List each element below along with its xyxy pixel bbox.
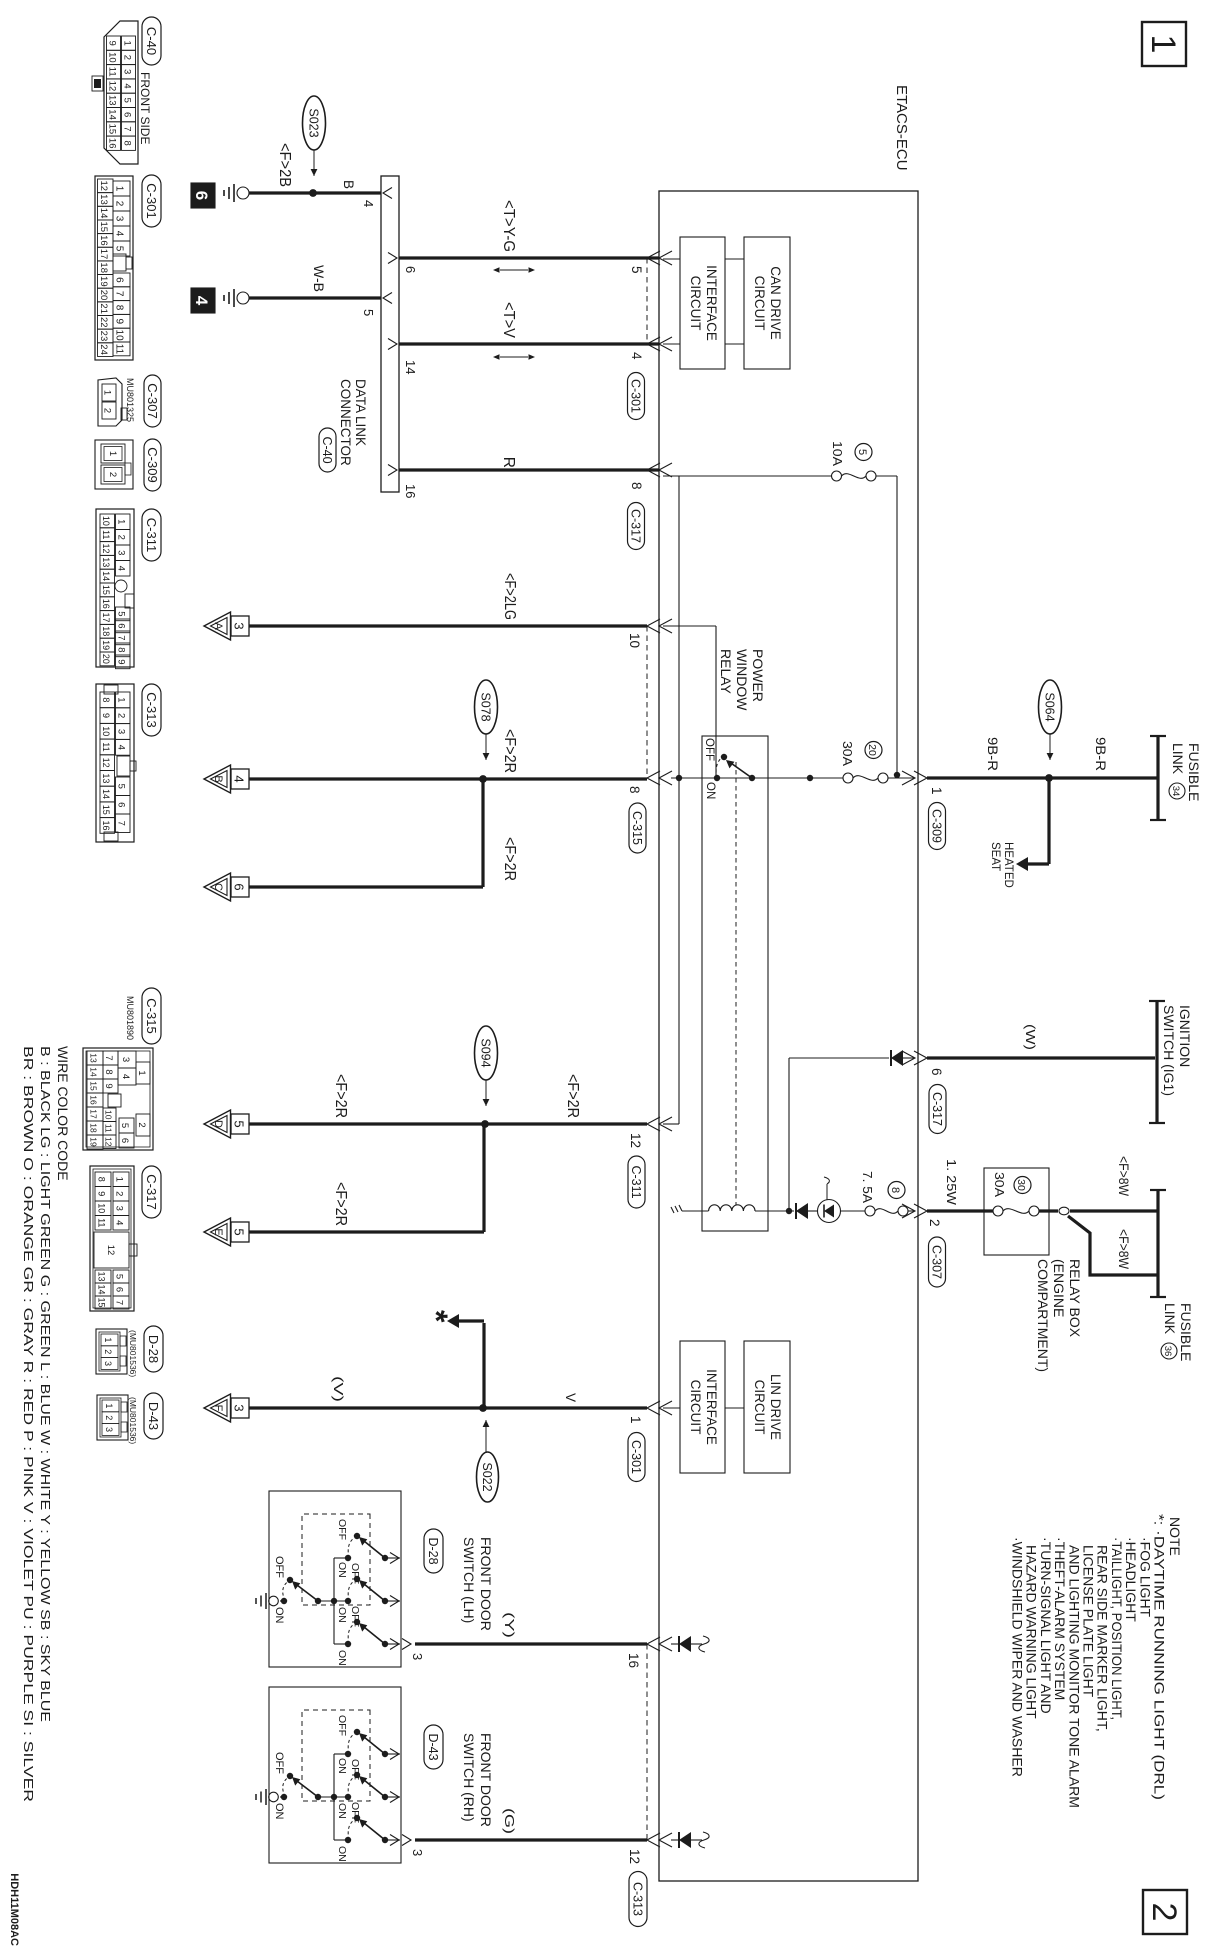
svg-text:14: 14 (403, 360, 418, 374)
pin ETACS 4 C-301 (647, 337, 660, 351)
relay contact OFF node (721, 754, 727, 760)
pin chevron DLC pin5 (383, 293, 392, 304)
svg-text:OFF: OFF (349, 1606, 361, 1627)
svg-text:SWITCH (RH): SWITCH (RH) (461, 1733, 477, 1822)
fuse 20 30A (878, 773, 888, 783)
svg-text:<F>2R: <F>2R (501, 729, 518, 773)
svg-text:S078: S078 (478, 692, 492, 721)
svg-text:<F>8W: <F>8W (1116, 1229, 1131, 1269)
wire pin5 to interface (663, 258, 680, 260)
svg-text:5: 5 (122, 98, 133, 103)
svg-text:A: A (212, 622, 224, 630)
wire fuse20 to top pins (888, 777, 914, 779)
svg-text:C-40: C-40 (144, 27, 159, 55)
pin ETACS 5 (647, 251, 660, 265)
svg-text:14: 14 (97, 1284, 107, 1294)
svg-text:14: 14 (101, 789, 111, 799)
wire <F>8W branch 1 to fusible link 36 (1070, 1209, 1158, 1212)
ground 6 symbol (237, 187, 249, 199)
connector DATA LINK CONNECTOR C-40 bar (381, 176, 399, 492)
wire R (DLC pin16 to ETACS pin8 C-317) (399, 468, 659, 471)
svg-text:CIRCUIT: CIRCUIT (688, 1380, 703, 1435)
output wire 3 (385, 1839, 400, 1841)
main pole to bus (318, 1796, 348, 1798)
svg-text:15: 15 (97, 1297, 107, 1307)
main dashed throw (283, 1777, 289, 1797)
surge arrester tail (826, 1184, 828, 1200)
svg-text:30A: 30A (992, 1172, 1007, 1197)
svg-text:ON: ON (336, 1803, 348, 1819)
svg-text:13: 13 (97, 1271, 107, 1281)
bus line (333, 1558, 335, 1644)
inter-page connector triangle B (204, 765, 231, 793)
label fuse 30 circled (1014, 1177, 1031, 1194)
svg-text:INTERFACE: INTERFACE (704, 265, 719, 341)
svg-text:·FOG LIGHT: ·FOG LIGHT (1137, 1537, 1153, 1618)
C-301 notch (113, 254, 126, 271)
svg-text:5: 5 (114, 1274, 125, 1279)
svg-text:ON: ON (336, 1758, 348, 1774)
svg-text:17: 17 (98, 249, 109, 260)
svg-text:36: 36 (1162, 1346, 1173, 1357)
svg-text:1: 1 (136, 1070, 147, 1075)
svg-text:12: 12 (107, 81, 118, 92)
svg-text:·THEFT-ALARM SYSTEM: ·THEFT-ALARM SYSTEM (1052, 1537, 1068, 1700)
svg-text:9B-R: 9B-R (1093, 737, 1108, 771)
svg-text:R: R (500, 457, 517, 468)
svg-text:OFF: OFF (336, 1715, 348, 1736)
svg-text:ON: ON (336, 1562, 348, 1578)
relay mechanical dashed link (735, 762, 737, 1205)
svg-text:8: 8 (889, 1187, 901, 1193)
wire <F>2R branch to triangle C (481, 779, 484, 887)
label C-40 oval (319, 428, 336, 472)
splice S022 dot (479, 1404, 487, 1412)
svg-text:CIRCUIT: CIRCUIT (752, 1380, 767, 1435)
wire diode branch to coil node (788, 1058, 790, 1211)
svg-text:·TAILLIGHT, POSITION LIGHT,: ·TAILLIGHT, POSITION LIGHT, (1109, 1537, 1125, 1720)
wire relay common vertical (pin8 C-315 to fuse 20) (671, 777, 843, 779)
inter-page connector F3 box (231, 1398, 249, 1418)
page number box 1 (1142, 22, 1186, 66)
label D-28 oval (424, 1529, 443, 1573)
svg-text:FRONT SIDE: FRONT SIDE (138, 72, 152, 144)
svg-text:24: 24 (98, 344, 109, 355)
relay POWER WINDOW RELAY box (702, 736, 768, 1231)
svg-text:13: 13 (107, 95, 118, 106)
svg-text:12: 12 (627, 1849, 642, 1864)
connector pinout C-317 (142, 1166, 161, 1218)
main ON node (281, 1598, 287, 1604)
svg-text:ON: ON (273, 1803, 285, 1820)
wire fuse5 to bus corner (876, 475, 897, 477)
svg-text:CONNECTOR: CONNECTOR (338, 379, 353, 466)
svg-text:<F>2R: <F>2R (332, 1074, 349, 1118)
switch FRONT DOOR SWITCH (RH) box (269, 1687, 401, 1863)
connector pinout C-309 (144, 439, 161, 491)
diode pin6 (891, 1050, 903, 1066)
svg-text:7. 5A: 7. 5A (860, 1171, 875, 1203)
svg-text:17: 17 (89, 1109, 99, 1119)
wire stub CAN pin4 (725, 343, 744, 345)
main dashed throw (283, 1581, 289, 1601)
wire surge to diode (808, 1210, 818, 1212)
C-313 notch (117, 756, 130, 776)
svg-text:3: 3 (104, 1427, 114, 1432)
svg-text:5: 5 (116, 611, 127, 616)
pin ETACS 1 C-301 (647, 1401, 660, 1415)
svg-text:LICENSE PLATE LIGHT: LICENSE PLATE LIGHT (1081, 1545, 1097, 1698)
svg-text:13: 13 (89, 1053, 99, 1063)
door switch contact set 2 (345, 1598, 351, 1604)
squiggle pin12 (699, 1832, 709, 1848)
svg-text:15: 15 (98, 221, 109, 232)
svg-text:C-311: C-311 (629, 1165, 643, 1198)
svg-text:LIN DRIVE: LIN DRIVE (768, 1374, 783, 1440)
wire (Y) front door switch LH to pin16 (415, 1642, 647, 1645)
svg-text:C-311: C-311 (144, 518, 159, 552)
ground symbol door switch (269, 1596, 279, 1606)
pin chevron DLC pin6 (388, 253, 397, 264)
svg-text:8: 8 (122, 141, 133, 146)
svg-text:2: 2 (102, 408, 113, 413)
pin ETACS 10 (647, 619, 660, 633)
C-40 tab M (92, 76, 103, 91)
door switch contact set 3 (345, 1837, 351, 1843)
wire internal bus to pin12 C-311 (678, 476, 680, 1124)
svg-text:MU801325: MU801325 (125, 378, 135, 422)
node fuse5/bus junction (894, 772, 900, 778)
svg-text:14: 14 (98, 208, 109, 219)
svg-text:F: F (212, 1405, 224, 1412)
svg-text:FRONT DOOR: FRONT DOOR (478, 1537, 494, 1631)
svg-text:8: 8 (627, 786, 642, 794)
wire <F>8W branch 2 (1068, 1216, 1158, 1275)
pin ETACS 16 (647, 1637, 660, 1651)
fusible link 34 bar (1156, 736, 1159, 820)
svg-text:2: 2 (114, 1191, 125, 1196)
svg-text:FUSIBLE: FUSIBLE (1178, 1303, 1194, 1361)
door switch contact set 3 (345, 1641, 351, 1647)
svg-text:2: 2 (122, 55, 133, 60)
svg-text:S064: S064 (1042, 692, 1056, 721)
svg-text:4: 4 (114, 1220, 125, 1225)
svg-text:<F>2R: <F>2R (501, 837, 518, 881)
svg-text:RELAY: RELAY (718, 649, 734, 695)
node coil/diode junction (786, 1208, 792, 1214)
svg-text:15: 15 (101, 805, 111, 815)
svg-text:<F>2B: <F>2B (276, 143, 293, 187)
fuse 30 30A (1029, 1206, 1039, 1216)
svg-text:3: 3 (114, 216, 125, 222)
svg-text:(W): (W) (1023, 1024, 1038, 1050)
svg-text:OFF: OFF (703, 738, 715, 761)
svg-text:11: 11 (101, 742, 111, 751)
inter-page connector C6 box (231, 877, 249, 897)
svg-text:CIRCUIT: CIRCUIT (688, 276, 703, 331)
svg-text:16: 16 (98, 235, 109, 246)
inner dashed box (302, 1514, 370, 1605)
svg-text:D-43: D-43 (146, 1402, 161, 1430)
svg-text:10: 10 (104, 1110, 114, 1120)
wire pin10 to relay ON contact (663, 625, 716, 627)
svg-text:3: 3 (103, 1361, 113, 1366)
pin ETACS top 2 C-307 (914, 1204, 927, 1218)
C-317 center cell 12 (94, 1232, 129, 1268)
svg-text:B : BLACK LG : LIGHT GREEN: B : BLACK LG : LIGHT GREEN G : GREEN L :… (38, 1046, 53, 1722)
pin chevron DLC pin14 (388, 339, 397, 350)
svg-text:1: 1 (929, 787, 944, 795)
svg-text:1: 1 (114, 186, 125, 192)
bus line (333, 1754, 335, 1840)
svg-text:SWITCH (LH): SWITCH (LH) (461, 1537, 477, 1623)
wire stub LIN link (725, 1407, 744, 1409)
splice S064 label (1039, 680, 1062, 734)
wire heated seat branch (1047, 778, 1050, 864)
svg-text:6: 6 (116, 802, 127, 807)
connector pinout C-311 (142, 509, 161, 561)
svg-text:10: 10 (97, 1203, 107, 1213)
inter-page connector D5 box (231, 1114, 249, 1134)
svg-text:11: 11 (101, 530, 111, 539)
door switch contact set 1 (345, 1751, 351, 1757)
svg-text:12: 12 (101, 543, 111, 553)
svg-text:<T>V: <T>V (500, 302, 517, 339)
svg-text:5: 5 (856, 449, 868, 455)
label fuse 20 circled (865, 742, 882, 759)
svg-text:17: 17 (101, 612, 111, 622)
svg-text:8: 8 (101, 697, 111, 702)
connector pinout C-313 (142, 684, 161, 736)
svg-text:5: 5 (629, 266, 644, 274)
svg-text:13: 13 (98, 194, 109, 205)
pin ETACS 12 C-313 (647, 1833, 660, 1847)
diode coil line (796, 1203, 808, 1219)
pivot node (315, 1598, 321, 1604)
wire fuse8 to surge arrester (841, 1210, 866, 1212)
wire 9B-R (pin1 C-309 to fusible link 34) (927, 776, 1158, 779)
wire asterisk branch (482, 1323, 485, 1408)
svg-text:*: ·DAYTIME RUNNING LIGHT (DRL: *: ·DAYTIME RUNNING LIGHT (DRL) (1152, 1514, 1168, 1800)
connector link dashed 10-8 (646, 626, 648, 778)
pin ETACS top 6 C-317 (914, 1051, 927, 1065)
op-amp: ETACS-ECU main box (659, 191, 918, 1881)
svg-text:18: 18 (89, 1123, 99, 1133)
output double chevron main (402, 1835, 411, 1846)
splice S023 label (303, 96, 326, 150)
wire pin2 to engine relay box (927, 1209, 993, 1212)
node dot above relay (807, 775, 813, 781)
svg-text:OFF: OFF (349, 1802, 361, 1823)
svg-text:16: 16 (89, 1095, 99, 1105)
svg-text:OFF: OFF (336, 1519, 348, 1540)
svg-text:OFF: OFF (273, 1556, 285, 1578)
svg-text:8: 8 (116, 647, 127, 652)
output wire 1 (385, 1557, 400, 1559)
svg-text:5: 5 (361, 309, 376, 316)
splice S078 label (475, 680, 498, 734)
svg-text:MU801890: MU801890 (125, 996, 135, 1040)
bus junction node (331, 1794, 337, 1800)
svg-text:S094: S094 (478, 1038, 492, 1067)
diode pin16 (678, 1636, 680, 1652)
svg-text:D-28: D-28 (426, 1537, 440, 1564)
wire pin6 internal (903, 1057, 914, 1059)
svg-text:15: 15 (89, 1081, 99, 1091)
svg-text:HEATED: HEATED (1002, 842, 1014, 888)
svg-text:7: 7 (103, 1055, 114, 1060)
connector pinout D-43 (144, 1393, 163, 1439)
output wire 2 (385, 1796, 400, 1798)
svg-text:8: 8 (629, 482, 644, 490)
inter-page connector E5 box (231, 1222, 249, 1242)
svg-text:4: 4 (192, 296, 211, 306)
svg-text:12: 12 (101, 758, 111, 768)
splice S094 label (475, 1026, 498, 1080)
relay contact ON node (714, 775, 720, 781)
output wire 3 (385, 1643, 400, 1645)
svg-text:1: 1 (116, 697, 127, 702)
svg-text:<T>Y-G: <T>Y-G (500, 200, 517, 252)
svg-text:4: 4 (232, 775, 247, 782)
svg-text:1: 1 (102, 390, 113, 395)
svg-text:20: 20 (101, 654, 111, 664)
svg-text:C-309: C-309 (930, 809, 944, 843)
splice S023 dot (309, 189, 317, 197)
inter-page connector triangle A (204, 612, 231, 640)
wire <F>2LG (triangle A to pin10) (249, 624, 647, 627)
door switch contact set 2 (345, 1794, 351, 1800)
svg-text:11: 11 (104, 1124, 114, 1133)
connector link dashed 5-4 (646, 258, 648, 344)
svg-text:HAZARD WARNING LIGHT: HAZARD WARNING LIGHT (1024, 1545, 1040, 1719)
svg-text:C-301: C-301 (629, 379, 643, 413)
svg-text:4: 4 (116, 566, 127, 571)
svg-text:7: 7 (122, 126, 133, 131)
svg-text:6: 6 (929, 1068, 944, 1076)
svg-text:7: 7 (116, 635, 127, 640)
svg-text:19: 19 (98, 276, 109, 287)
svg-text:OFF: OFF (349, 1759, 361, 1780)
pin ETACS 12 C-311 (647, 1117, 660, 1131)
svg-text:W-B: W-B (311, 265, 326, 292)
bidirectional arrow V (500, 356, 528, 358)
svg-text:2: 2 (116, 535, 127, 540)
bullet connector (1059, 1207, 1069, 1215)
svg-text:4: 4 (116, 745, 127, 750)
fuse 8 7.5A (898, 1206, 908, 1216)
svg-text:5: 5 (232, 1120, 247, 1127)
fuse 5 10A (866, 471, 876, 481)
inter-page connector triangle E (204, 1218, 231, 1246)
svg-text:2: 2 (1145, 1903, 1183, 1922)
main pole wire (280, 1600, 284, 1602)
wire <F>2R branch to triangle E (482, 1124, 485, 1232)
arrowhead asterisk (447, 1314, 459, 1328)
wire pin2 internal to fuse 8 (908, 1210, 914, 1212)
svg-text:1: 1 (107, 451, 118, 456)
svg-text:5: 5 (232, 1228, 247, 1235)
svg-text:2: 2 (103, 1349, 113, 1354)
svg-text:IGNITION: IGNITION (1177, 1005, 1193, 1067)
svg-text:<F>2R: <F>2R (564, 1074, 581, 1118)
bidirectional arrow Y-G (500, 269, 528, 271)
inter-page connector triangle D (204, 1110, 231, 1138)
svg-text:<F>2R: <F>2R (332, 1182, 349, 1226)
svg-text:16: 16 (101, 820, 111, 830)
ground 6 black box (191, 183, 215, 208)
svg-text:4: 4 (629, 352, 644, 360)
svg-text:10A: 10A (830, 441, 845, 466)
svg-text:9: 9 (97, 1191, 107, 1196)
svg-text:B: B (341, 180, 356, 189)
svg-text:D-28: D-28 (146, 1335, 161, 1363)
svg-text:RELAY BOX: RELAY BOX (1067, 1259, 1083, 1338)
svg-text:1: 1 (104, 1403, 114, 1408)
svg-text:10: 10 (101, 516, 111, 526)
svg-text:(V): (V) (331, 1376, 346, 1402)
block CAN DRIVE CIRCUIT (744, 237, 790, 369)
svg-text:9B-R: 9B-R (985, 737, 1000, 771)
squiggle pin16 (699, 1636, 709, 1652)
output wire 2 (385, 1600, 400, 1602)
svg-text:BR : BROWN O : ORANGE GR: BR : BROWN O : ORANGE GR : GRAY R : RED … (21, 1046, 36, 1802)
svg-text:14: 14 (107, 109, 118, 120)
door switch contact set 1 (345, 1555, 351, 1561)
svg-text:16: 16 (101, 599, 111, 609)
block INTERFACE CIRCUIT (CAN side) (680, 237, 725, 369)
svg-text:1: 1 (628, 1416, 643, 1424)
wire pin8 C-317 up to fuse 5 (663, 475, 832, 477)
relay contact arm (728, 761, 752, 778)
svg-text:AND LIGHTING MONITOR TONE ALAR: AND LIGHTING MONITOR TONE ALARM (1066, 1545, 1082, 1808)
svg-text:FUSIBLE: FUSIBLE (1186, 743, 1202, 801)
svg-text:3: 3 (122, 69, 133, 74)
svg-text:10: 10 (114, 330, 125, 342)
svg-text:FRONT DOOR: FRONT DOOR (478, 1733, 494, 1827)
svg-text:3: 3 (232, 622, 247, 629)
svg-text:12: 12 (628, 1133, 643, 1148)
pin ETACS top 1 C-309 (914, 771, 927, 785)
svg-text:9: 9 (107, 40, 118, 45)
svg-text:E: E (212, 1228, 224, 1235)
diode pin12 (678, 1832, 680, 1848)
svg-text:7: 7 (114, 291, 125, 297)
wire <T>V (DLC pin14 to ETACS pin4) (399, 342, 659, 345)
label D-43 oval (424, 1725, 443, 1769)
svg-text:SWITCH (IG1): SWITCH (IG1) (1161, 1005, 1177, 1096)
svg-text:12: 12 (104, 1137, 114, 1147)
svg-text:V: V (563, 1393, 578, 1402)
svg-text:SEAT: SEAT (989, 842, 1001, 871)
svg-text:8: 8 (97, 1177, 107, 1182)
svg-text:(MU801536): (MU801536) (128, 1397, 138, 1444)
svg-text:(MU801536): (MU801536) (128, 1330, 138, 1377)
svg-text:(Y): (Y) (502, 1612, 517, 1638)
svg-text:13: 13 (101, 557, 111, 567)
wire <F>2R (triangle B to pin8 C-315) (249, 777, 647, 780)
svg-text:(G): (G) (502, 1808, 517, 1834)
switch FRONT DOOR SWITCH (LH) box (269, 1491, 401, 1667)
svg-text:10: 10 (101, 726, 111, 736)
C-311 circle cell (115, 580, 127, 592)
page number box 2 (1143, 1890, 1187, 1934)
inner dashed box (302, 1710, 370, 1801)
svg-text:3: 3 (114, 1206, 125, 1211)
svg-text:1: 1 (114, 1177, 125, 1182)
connector pinout C-301 (142, 175, 161, 227)
svg-text:D-43: D-43 (426, 1733, 440, 1760)
